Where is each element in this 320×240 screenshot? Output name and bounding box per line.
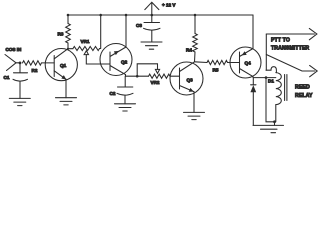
wire C2 to ground [124, 95, 126, 103]
reed relay coil [266, 67, 313, 126]
wire VR1 right to rail [100, 15, 101, 49]
wire rail to R4 [194, 15, 196, 34]
wire relay coil return [266, 78, 275, 122]
junction rail/R4 [194, 14, 197, 17]
svg-text:TRANSMITTER: TRANSMITTER [271, 46, 309, 52]
wire R2 to Q1 base [42, 62, 55, 64]
svg-text:VR1: VR1 [81, 39, 90, 44]
wire C1 to ground [19, 81, 21, 98]
svg-text:R5: R5 [213, 68, 219, 73]
wire VR2 to Q3 base [170, 75, 180, 77]
junction rail/Q2 emitter [125, 14, 128, 17]
wire rail to C3 [151, 15, 153, 23]
wire Q2 emitter to rail [125, 15, 127, 47]
wire VR1 wiper to Q2 base [86, 55, 110, 64]
wire VR2 wiper loop [137, 64, 157, 76]
diode D1 [250, 78, 274, 126]
+12V arrow [145, 2, 159, 15]
svg-text:COS IN: COS IN [6, 47, 23, 52]
ground (C1) [9, 98, 30, 105]
junction rail/+12V/C3 [151, 14, 154, 17]
transistor Q1 [45, 49, 77, 81]
ground (C2) [115, 104, 136, 111]
node D1/relay top [265, 76, 268, 79]
junction rail/VR1 [99, 14, 102, 17]
wire R5 to Q4 base [228, 62, 240, 64]
wire Q3 emitter to ground [193, 92, 195, 113]
transistor Q4 [230, 47, 261, 78]
svg-text:PTT TO: PTT TO [271, 38, 290, 44]
potentiometer VR2 [149, 69, 171, 85]
svg-text:VR2: VR2 [151, 80, 160, 85]
resistor R5 [207, 60, 228, 72]
potentiometer VR1 [73, 39, 100, 55]
svg-text:R3: R3 [58, 32, 64, 37]
svg-text:+ 12 V: + 12 V [162, 3, 176, 8]
resistor R3 [58, 24, 71, 44]
wire R4 to Q3 collector node [194, 52, 197, 62]
wire Q4 collector node horizontal [253, 77, 275, 79]
node A junction [19, 62, 22, 65]
wire PTT top with arrow to transmitter [266, 28, 317, 39]
ground (Q3 emitter) [184, 112, 205, 119]
ground (relay) [253, 125, 284, 132]
wire input to node A [16, 62, 20, 64]
wire Q2 collector to VR2 [126, 75, 149, 77]
wire PTT box edge [265, 34, 267, 70]
capacitor C3 [136, 23, 160, 31]
transistor Q2 [100, 44, 132, 76]
junction rail/R3 [67, 14, 70, 17]
svg-text:C1: C1 [4, 75, 10, 80]
capacitor C2 [110, 76, 134, 96]
svg-text:C3: C3 [136, 23, 142, 28]
wire C3 to ground [151, 31, 153, 42]
svg-text:R4: R4 [186, 48, 192, 53]
node VR2 left junction [136, 75, 139, 78]
wire reed switch with arrow to transmitter [266, 55, 317, 77]
wire Q1 emitter to ground [65, 79, 67, 97]
input arrow COS IN [5, 55, 16, 71]
wire R3 to Q1 collector node [67, 43, 69, 49]
wire Q3 collector to R5 [195, 61, 208, 64]
svg-text:REED: REED [295, 85, 310, 91]
wire Q2 collector down [125, 75, 127, 77]
wire node to VR1 [68, 48, 73, 50]
svg-text:Q4: Q4 [245, 61, 252, 66]
svg-text:Q2: Q2 [121, 60, 128, 65]
svg-text:R2: R2 [32, 68, 38, 73]
resistor R4 [186, 34, 197, 53]
ground (Q1 emitter) [56, 98, 77, 105]
svg-text:Q1: Q1 [60, 63, 67, 68]
svg-text:C2: C2 [110, 91, 116, 96]
resistor R2 [23, 61, 42, 73]
svg-text:D1: D1 [268, 79, 274, 84]
wire Q4 collector down [252, 77, 254, 78]
wire rail to R3 [67, 15, 69, 24]
svg-text:RELAY: RELAY [295, 93, 313, 99]
+12V supply rail [68, 14, 253, 16]
wire rail corner to Q4 emitter [252, 15, 254, 49]
node relay bottom junction [273, 120, 276, 123]
transistor Q3 [170, 62, 203, 95]
svg-text:Q3: Q3 [187, 78, 194, 83]
ground (C3) [141, 42, 162, 49]
capacitor C1 [4, 63, 28, 81]
node Q1 collector [67, 48, 69, 50]
reed switch capsule [285, 75, 287, 101]
